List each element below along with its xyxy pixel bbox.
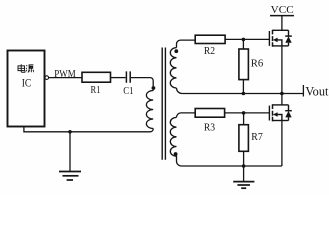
wire C1 to primary top xyxy=(131,78,153,91)
svg-text:Vout: Vout xyxy=(305,85,329,99)
secondary winding top xyxy=(177,40,196,48)
wire node to R6 xyxy=(242,39,244,49)
wire R3 to bottom gate node xyxy=(225,112,270,114)
label 电源 (drawn glyphs) xyxy=(18,64,34,72)
wire node to R7 xyxy=(243,113,245,125)
capacitor C1 xyxy=(126,71,130,82)
glyph 源 xyxy=(26,65,28,71)
resistor R6 xyxy=(239,49,249,80)
svg-text:R1: R1 xyxy=(91,84,101,96)
svg-text:IC: IC xyxy=(22,78,32,90)
wire to left ground xyxy=(69,132,71,172)
node junction bottom rail xyxy=(242,164,246,168)
resistor R7 xyxy=(239,125,249,152)
wire R2 to gate node xyxy=(225,38,269,40)
svg-text:R3: R3 xyxy=(204,122,215,133)
wire bottom rail up to bottom FET source xyxy=(281,121,283,167)
wire primary bottom to IC ground rail xyxy=(24,127,153,132)
MOSFET Q1 (top) xyxy=(269,30,291,47)
glyph 电 xyxy=(18,64,25,72)
primary phase dot xyxy=(152,86,156,90)
wire to Vout terminal xyxy=(282,93,304,95)
resistor R3 xyxy=(195,109,224,118)
svg-text:R2: R2 xyxy=(204,46,215,57)
wire VCC to drain xyxy=(281,16,283,31)
wire R1 to C1 xyxy=(111,77,126,79)
IC pin circle xyxy=(45,76,49,80)
wire secondary top bottom lead to rail xyxy=(177,88,282,94)
secondary top phase dot xyxy=(174,49,178,53)
node junction IC ground xyxy=(68,130,72,134)
svg-text:PWM: PWM xyxy=(54,69,76,80)
secondary bottom phase dot xyxy=(174,152,178,156)
svg-text:VCC: VCC xyxy=(271,5,294,16)
power IC box xyxy=(8,51,45,127)
wire R7 to bottom rail xyxy=(243,151,245,166)
wire to right ground xyxy=(243,166,245,181)
wire R6 to rail xyxy=(242,80,244,94)
node junction R6 bottom xyxy=(242,92,246,96)
wire R3 left to secondary bottom winding xyxy=(177,113,196,118)
svg-text:C1: C1 xyxy=(123,85,133,97)
node junction R2/R6 xyxy=(242,38,246,42)
resistor R1 xyxy=(82,72,111,82)
transformer core xyxy=(162,48,165,160)
secondary winding bottom xyxy=(170,117,282,166)
MOSFET Q2 (bottom) xyxy=(269,104,291,121)
transformer primary winding xyxy=(146,91,153,129)
Vout terminal tick xyxy=(302,85,304,97)
wire top FET source to Vout node, down to bottom FET drain xyxy=(281,46,283,105)
svg-text:R7: R7 xyxy=(251,132,262,143)
ground (right) xyxy=(233,181,254,183)
svg-text:R6: R6 xyxy=(251,59,263,70)
node junction R3/R7 xyxy=(242,111,246,115)
VCC terminal bar xyxy=(270,15,294,17)
wire PWM xyxy=(49,77,82,79)
resistor R2 xyxy=(195,35,225,43)
ground (left) xyxy=(59,171,81,173)
node junction Vout xyxy=(280,92,284,96)
